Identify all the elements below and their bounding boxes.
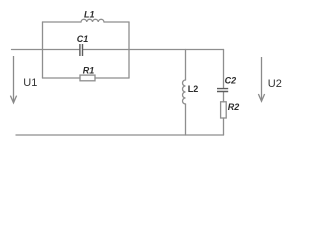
label R1 <box>83 66 95 76</box>
svg-text:U2: U2 <box>268 78 282 90</box>
label R2 <box>228 102 240 112</box>
label L1 <box>84 10 95 20</box>
wire box bottom edge segments <box>43 77 130 79</box>
wire C2 R2 branch vertical <box>223 50 225 136</box>
wire box right edge <box>128 22 130 78</box>
capacitor C1 <box>80 44 83 56</box>
svg-text:L1: L1 <box>84 10 95 20</box>
label C2 <box>225 75 237 85</box>
resistor R2 <box>221 102 227 118</box>
svg-text:C2: C2 <box>225 75 237 85</box>
inductor L2 <box>183 80 186 104</box>
svg-text:U1: U1 <box>23 77 37 89</box>
svg-text:C1: C1 <box>77 34 89 44</box>
wire bottom rail <box>16 134 224 136</box>
label U1 <box>23 77 37 89</box>
label C1 <box>77 34 89 44</box>
wire L2 branch vertical <box>185 50 187 136</box>
wire box left edge <box>42 22 44 78</box>
arrow U2 <box>258 57 264 101</box>
wire top rail (input to output node) <box>12 49 224 51</box>
inductor L1 <box>81 19 104 22</box>
svg-text:L2: L2 <box>188 84 199 94</box>
wire box top edge segments <box>43 21 130 23</box>
label L2 <box>188 84 199 94</box>
svg-text:R1: R1 <box>83 66 95 76</box>
arrow U1 <box>10 56 16 103</box>
svg-text:R2: R2 <box>228 102 240 112</box>
label U2 <box>268 78 282 90</box>
capacitor C2 <box>217 89 228 92</box>
resistor R1 <box>80 75 95 81</box>
